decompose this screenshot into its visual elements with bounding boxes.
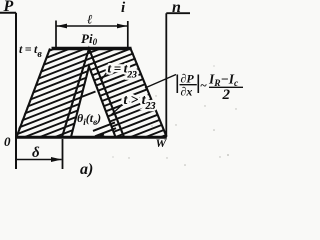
delta arrow line: [16, 159, 62, 161]
formula |dP/dx| ~ (IR-Ic)/2: [177, 72, 243, 103]
delta dimension: extension line right: [62, 139, 64, 169]
bars: [176, 75, 178, 94]
svg-text:~: ~: [200, 78, 207, 92]
right slant: [131, 49, 167, 137]
svg-text:θi(tв): θi(tв): [77, 111, 101, 127]
top edge: [52, 47, 132, 51]
leader t>t23: [112, 104, 124, 115]
svg-text:W: W: [156, 136, 168, 150]
svg-text:∂x: ∂x: [181, 85, 193, 99]
svg-text:0: 0: [4, 134, 11, 149]
stray hatch segments inside inner triangle: [80, 92, 116, 137]
t=tB label: [19, 42, 42, 60]
leader formula: [145, 75, 176, 89]
l dimension: extension lines: [56, 21, 128, 49]
t>t23 label: [124, 92, 156, 112]
bottom edge: [15, 136, 167, 139]
svg-text:n: n: [172, 0, 181, 16]
left axis bracket P: [0, 13, 16, 169]
triangle t>t23: [71, 67, 116, 138]
hatching inside trapezoid: [0, 0, 250, 240]
svg-text:a): a): [80, 161, 93, 178]
svg-text:2: 2: [222, 87, 231, 103]
white interior of inner triangle: [71, 66, 116, 137]
svg-text:∂P: ∂P: [181, 72, 195, 86]
triangle t=t23: [62, 49, 124, 137]
svg-text:ℓ: ℓ: [87, 12, 93, 27]
scan speckles: [112, 65, 236, 165]
t=t23 label: [108, 61, 138, 81]
svg-text:δ: δ: [32, 145, 40, 161]
l dimension arrow line: [56, 25, 128, 27]
right bracket n: [166, 13, 190, 137]
leader t=t23: [101, 72, 108, 81]
svg-text:P: P: [3, 0, 14, 15]
left slant: [17, 49, 51, 138]
